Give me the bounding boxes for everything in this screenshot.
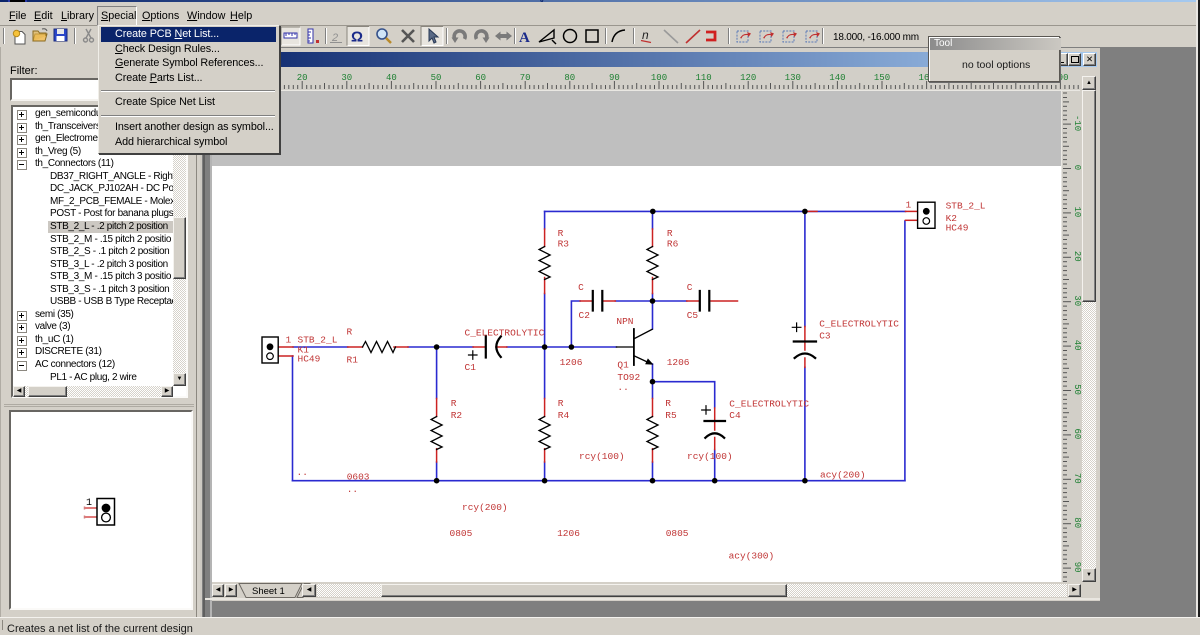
svg-text:80: 80 bbox=[564, 73, 575, 83]
child title bar bbox=[208, 52, 1097, 67]
wire C3 branch bbox=[804, 211, 806, 480]
svg-text:R: R bbox=[347, 327, 353, 338]
svg-text:C1: C1 bbox=[465, 362, 477, 373]
svg-text:60: 60 bbox=[1072, 428, 1081, 439]
wire K1 pin2 to rail bbox=[292, 356, 294, 481]
svg-text:20: 20 bbox=[1072, 251, 1081, 262]
svg-text:NPN: NPN bbox=[616, 316, 633, 327]
svg-text:90: 90 bbox=[1072, 562, 1081, 573]
resistor R1 bbox=[363, 342, 396, 353]
svg-text:50: 50 bbox=[431, 73, 442, 83]
svg-text:1: 1 bbox=[906, 200, 912, 211]
wire C2 branch bbox=[571, 301, 686, 347]
svg-text:C3: C3 bbox=[819, 331, 831, 342]
svg-text:1: 1 bbox=[86, 498, 92, 509]
wire base rail bbox=[293, 346, 616, 348]
capacitor C4 plus bbox=[702, 406, 711, 415]
svg-text:-10: -10 bbox=[1072, 115, 1081, 131]
svg-text:R: R bbox=[451, 398, 457, 409]
child buttons bbox=[0, 0, 1200, 1]
svg-text:acy(300): acy(300) bbox=[729, 551, 775, 562]
svg-text:40: 40 bbox=[1072, 340, 1081, 351]
svg-text:1: 1 bbox=[286, 335, 292, 346]
svg-text:R: R bbox=[665, 398, 671, 409]
tree h scrollbar bbox=[13, 386, 173, 397]
resistor R2 bbox=[431, 417, 442, 450]
svg-text:90: 90 bbox=[609, 73, 620, 83]
svg-text:HC49: HC49 bbox=[298, 354, 321, 365]
svg-text:R2: R2 bbox=[451, 410, 463, 421]
svg-text:C_ELECTROLYTIC: C_ELECTROLYTIC bbox=[729, 399, 809, 410]
svg-text:20: 20 bbox=[297, 73, 308, 83]
wire R3 column bbox=[544, 211, 546, 480]
connector K1 bbox=[262, 337, 278, 363]
svg-text:18.000, -16.000 mm: 18.000, -16.000 mm bbox=[833, 32, 919, 43]
svg-text:acy(200): acy(200) bbox=[820, 470, 866, 481]
svg-text:C: C bbox=[687, 282, 693, 293]
left frame lines next to child bbox=[200, 47, 202, 617]
svg-text:1206: 1206 bbox=[557, 528, 580, 539]
svg-text:..: .. bbox=[617, 382, 628, 393]
svg-text:10: 10 bbox=[1072, 206, 1081, 217]
vertical ruler bbox=[1062, 91, 1081, 582]
svg-text:..: .. bbox=[347, 484, 358, 495]
svg-text:70: 70 bbox=[520, 73, 531, 83]
svg-text:0805: 0805 bbox=[666, 528, 689, 539]
capacitor C2 plates bbox=[593, 291, 603, 311]
junction dots bbox=[434, 209, 808, 484]
wire R6/Q1/R5 column bbox=[652, 211, 654, 480]
svg-text:R: R bbox=[558, 398, 564, 409]
svg-text:80: 80 bbox=[1072, 517, 1081, 528]
svg-text:140: 140 bbox=[829, 73, 845, 83]
svg-text:..: .. bbox=[297, 467, 308, 478]
svg-text:C_ELECTROLYTIC: C_ELECTROLYTIC bbox=[465, 328, 545, 339]
svg-text:R: R bbox=[667, 228, 673, 239]
pin stubs red bbox=[278, 211, 917, 462]
svg-text:1206: 1206 bbox=[667, 357, 690, 368]
svg-text:R3: R3 bbox=[558, 239, 570, 250]
resistor R5 bbox=[647, 417, 658, 450]
connector preview symbol K bbox=[85, 498, 115, 525]
svg-text:rcy(200): rcy(200) bbox=[462, 502, 508, 513]
wire top rail bbox=[545, 210, 906, 212]
wire R2 branch bbox=[436, 347, 438, 481]
capacitor C5 plates bbox=[700, 291, 710, 311]
main window right border bbox=[1196, 0, 1198, 630]
svg-text:C4: C4 bbox=[729, 410, 741, 421]
svg-text:150: 150 bbox=[874, 73, 890, 83]
svg-text:120: 120 bbox=[740, 73, 756, 83]
tree v scrollbar bbox=[173, 107, 186, 386]
v scrollbar bbox=[1082, 76, 1096, 582]
capacitor C1 plus bbox=[469, 351, 478, 360]
svg-text:C2: C2 bbox=[579, 310, 591, 321]
svg-text:HC49: HC49 bbox=[946, 223, 969, 234]
svg-text:R6: R6 bbox=[667, 239, 679, 250]
svg-text:100: 100 bbox=[651, 73, 667, 83]
svg-text:60: 60 bbox=[475, 73, 486, 83]
svg-text:R: R bbox=[558, 228, 564, 239]
svg-text:110: 110 bbox=[695, 73, 711, 83]
svg-text:40: 40 bbox=[386, 73, 397, 83]
capacitor C3 plus bbox=[792, 323, 801, 332]
svg-text:70: 70 bbox=[1072, 473, 1081, 484]
svg-text:0: 0 bbox=[1072, 165, 1081, 170]
resistor R6 bbox=[647, 247, 658, 280]
svg-text:R4: R4 bbox=[558, 410, 570, 421]
svg-text:n: n bbox=[642, 28, 649, 42]
svg-text:Ω: Ω bbox=[351, 29, 363, 46]
resistor R3 bbox=[539, 247, 550, 280]
svg-text:R1: R1 bbox=[347, 355, 359, 366]
tree panel bbox=[11, 105, 188, 398]
svg-text:130: 130 bbox=[785, 73, 801, 83]
splitter bbox=[4, 404, 194, 405]
svg-text:0603: 0603 bbox=[347, 472, 370, 483]
capacitor C1 plates bbox=[486, 336, 501, 358]
svg-text:1206: 1206 bbox=[560, 357, 583, 368]
svg-text:C_ELECTROLYTIC: C_ELECTROLYTIC bbox=[819, 319, 899, 330]
connector K2 bbox=[918, 202, 935, 228]
svg-text:C: C bbox=[578, 282, 584, 293]
canvas bbox=[212, 91, 1061, 582]
svg-text:0805: 0805 bbox=[450, 528, 473, 539]
svg-text:30: 30 bbox=[1072, 295, 1081, 306]
svg-text:rcy(100): rcy(100) bbox=[579, 451, 625, 462]
preview panel bbox=[9, 410, 193, 610]
svg-text:30: 30 bbox=[341, 73, 352, 83]
svg-text:C5: C5 bbox=[687, 310, 699, 321]
transistor Q1 bbox=[616, 329, 652, 365]
svg-text:STB_2_L: STB_2_L bbox=[946, 201, 986, 212]
wire emitter rail bbox=[653, 382, 715, 481]
wire bottom rail bbox=[293, 480, 905, 482]
capacitor C3 plates bbox=[794, 342, 816, 359]
svg-text:50: 50 bbox=[1072, 384, 1081, 395]
horizontal ruler bbox=[212, 68, 1080, 90]
svg-text:A: A bbox=[519, 30, 530, 46]
tab bar + h scrollbar bbox=[212, 583, 1096, 598]
capacitor C4 plates bbox=[705, 421, 726, 438]
wire K2 pin2 to rail bbox=[904, 221, 906, 481]
svg-text:R5: R5 bbox=[665, 410, 677, 421]
svg-text:rcy(100): rcy(100) bbox=[687, 451, 733, 462]
resistor R4 bbox=[539, 417, 550, 450]
svg-text:Q1: Q1 bbox=[617, 360, 629, 371]
